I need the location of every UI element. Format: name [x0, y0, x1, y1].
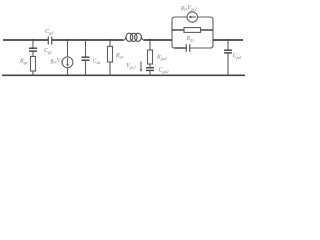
svg-text:Rds: Rds — [186, 36, 195, 43]
wire bottom rail — [2, 74, 245, 76]
svg-text:Rgs2: Rgs2 — [156, 55, 167, 62]
wire top rail middle segment — [52, 39, 123, 41]
capacitor C_ds — [82, 57, 101, 65]
resistor R_gs — [19, 57, 36, 72]
resistor R_gs2 — [148, 50, 168, 64]
current source g_m V_gs2 — [187, 12, 197, 22]
svg-text:Vgs2: Vgs2 — [126, 63, 136, 70]
block bottom-left wire — [175, 47, 187, 49]
svg-text:Cgd: Cgd — [45, 29, 54, 36]
svg-text:gmV1: gmV1 — [51, 58, 63, 65]
wire top rail after inductor — [144, 39, 172, 41]
capacitor C_ds2 (block bottom branch) — [186, 44, 189, 51]
wire — [149, 64, 151, 67]
inductor L (series, top rail) — [123, 33, 144, 41]
svg-text:Rds: Rds — [115, 53, 124, 60]
capacitor C_gd (series, top rail) — [45, 29, 54, 45]
capacitor C_gs — [29, 48, 52, 55]
node at branch 1 — [32, 39, 34, 41]
block middle branch wires — [172, 29, 184, 31]
wire — [85, 40, 87, 57]
wire — [67, 68, 69, 76]
svg-text:Cpd: Cpd — [233, 54, 242, 61]
node at current source branch — [66, 39, 68, 41]
wire — [227, 53, 229, 75]
node at C_pd branch — [227, 39, 229, 41]
resistor R_ds2 — [184, 28, 201, 43]
node at R_ds branch — [109, 39, 111, 41]
svg-text:Cgs: Cgs — [44, 48, 52, 55]
svg-text:Rgs: Rgs — [19, 59, 28, 66]
wire — [67, 40, 69, 57]
block left vertical — [172, 17, 187, 48]
voltage label V_gs2 with arrow — [126, 62, 142, 72]
node at second gate branch — [149, 39, 151, 41]
wire — [149, 40, 151, 50]
wire — [109, 62, 111, 76]
wire — [109, 40, 111, 46]
wire top rail right segment — [213, 39, 243, 41]
svg-text:gmVgs2: gmVgs2 — [181, 5, 198, 12]
node at C_ds branch — [84, 39, 86, 41]
capacitor C_pd — [224, 50, 242, 60]
wire — [32, 71, 34, 76]
wire — [85, 60, 87, 75]
block top-right horizontal — [198, 17, 214, 40]
current source g_m V_1 — [51, 57, 73, 68]
resistor R_ds — [108, 46, 124, 62]
wire branch 1 down — [32, 40, 34, 48]
wire — [227, 40, 229, 50]
wire — [149, 71, 151, 76]
capacitor C_gs2 — [146, 68, 169, 75]
wire — [32, 51, 34, 56]
svg-text:Cgs2: Cgs2 — [159, 68, 170, 75]
block bottom-right wire — [190, 40, 213, 48]
svg-text:Cds: Cds — [93, 59, 101, 66]
wire top rail left segment — [3, 39, 48, 41]
